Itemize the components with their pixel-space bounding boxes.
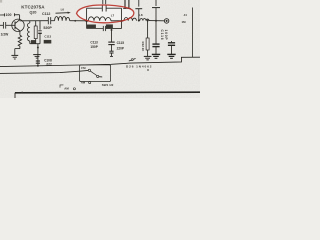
node and wire to ground/cap chain <box>37 44 39 66</box>
node (tank right junction) <box>120 20 122 22</box>
main top wire (left of C112) <box>20 20 48 22</box>
switch box SW1 <box>80 65 111 82</box>
switch arm <box>90 71 97 75</box>
cut-off component legs at top edge (x~126) <box>123 0 131 8</box>
contact circle (bottom) <box>73 88 75 90</box>
capacitor to ground (right of C116) <box>168 41 175 54</box>
capacitor (series, base input) <box>0 22 8 29</box>
svg-text:68P: 68P <box>44 40 49 44</box>
capacitor C116 to ground <box>152 21 159 55</box>
node <box>138 20 140 22</box>
svg-text:C113: C113 <box>44 35 51 39</box>
svg-text:L7: L7 <box>111 14 115 18</box>
capacitor C114 (tank bottom branch) <box>87 21 122 31</box>
wire from common <box>99 76 102 78</box>
stub to cut-off component above (left) <box>135 0 142 21</box>
svg-text:L8: L8 <box>139 13 143 17</box>
bottom board edge line <box>15 92 200 98</box>
svg-text:D26 1N4062: D26 1N4062 <box>126 65 152 69</box>
svg-text:L6: L6 <box>61 7 65 11</box>
svg-text:220P: 220P <box>117 47 125 51</box>
resistor R (100) input wire top-left <box>0 13 20 16</box>
capacitor chain C113/150P C115/220P below tank <box>108 29 114 57</box>
stub to cut-off component above (right) <box>152 0 160 21</box>
vertical inductor (left cluster) <box>28 21 30 44</box>
svg-text:C116: C116 <box>160 30 164 41</box>
svg-text:1M: 1M <box>182 20 187 24</box>
capacitor C112 (series on top wire) <box>48 17 50 24</box>
node (R chain tap) <box>147 20 149 22</box>
connector symbol (D26 tap) <box>129 59 136 62</box>
switch contact FM <box>88 69 90 71</box>
svg-text:Q20: Q20 <box>30 11 37 15</box>
capacitor C108 .022 <box>36 61 40 63</box>
whitened area inside red ellipse annotation <box>78 5 133 22</box>
inductor (between L7 and L8) <box>124 18 137 21</box>
wire/divider line A with riser to block <box>0 57 182 66</box>
node (wire junction) <box>74 20 76 22</box>
wire emitter to ground <box>15 31 22 55</box>
svg-text:C114: C114 <box>87 25 94 29</box>
wire L6 to tank <box>70 20 89 22</box>
svg-text:C113: C113 <box>90 41 98 45</box>
svg-text:C112: C112 <box>42 12 50 16</box>
svg-text:FM: FM <box>81 66 86 70</box>
svg-text:100: 100 <box>6 13 12 17</box>
wire line B to switch <box>0 70 88 73</box>
wire C112 to L6 <box>51 20 55 22</box>
svg-text:SW1 1/2: SW1 1/2 <box>102 83 114 87</box>
value label blob (cluster resistor) <box>31 40 36 43</box>
stray mark o <box>147 69 149 71</box>
tuner block outline (right edge) <box>181 8 200 58</box>
inductor L7 <box>88 17 111 21</box>
svg-text:J4: J4 <box>184 13 188 17</box>
node (C116 tap) <box>155 20 157 22</box>
connector J4 (coax jack) <box>164 19 169 24</box>
ground (C116) <box>152 54 160 58</box>
wire joining cluster <box>30 43 40 45</box>
label 10P <box>106 24 113 28</box>
ground (cluster) <box>33 55 41 59</box>
resistor chain (1K) below L8 <box>146 21 149 57</box>
label C114 <box>86 25 96 29</box>
svg-text:10P: 10P <box>107 25 112 29</box>
svg-text:150P: 150P <box>90 45 98 49</box>
wire L8 to connector <box>149 20 164 22</box>
node (tank left junction) <box>86 20 88 22</box>
node on bottom line <box>21 92 23 94</box>
svg-text:R12 1K: R12 1K <box>141 42 145 53</box>
transistor Q20 <box>8 15 24 32</box>
arrow annotation above L6 <box>56 12 71 14</box>
svg-text:C115: C115 <box>117 41 125 45</box>
inductor L8 <box>140 19 149 21</box>
inductor L6 <box>55 16 70 20</box>
paper background <box>0 0 200 98</box>
svg-text:520P: 520P <box>43 26 52 30</box>
bracket mark <box>60 85 63 88</box>
wire tank to coil <box>111 20 124 22</box>
ground (emitter) <box>11 55 18 59</box>
corner smudge <box>0 0 2 3</box>
svg-text:AM: AM <box>64 86 69 90</box>
label 68P <box>44 40 52 44</box>
red pen ellipse annotation <box>77 5 134 23</box>
switch contact AM <box>89 82 91 84</box>
svg-text:1/2W: 1/2W <box>1 33 10 37</box>
svg-text:100P: 100P <box>164 30 168 41</box>
svg-text:KTC2075A: KTC2075A <box>21 5 45 10</box>
switch contact common <box>97 75 99 77</box>
ground <box>167 54 175 58</box>
svg-text:AM: AM <box>81 81 86 85</box>
capacitor (upper branch of L7 trap) <box>87 0 122 21</box>
vertical resistor (left cluster) <box>34 21 37 44</box>
ground (1K resistor) <box>144 56 152 60</box>
node on line A <box>37 65 39 67</box>
capacitor C113 (left, 68P) <box>38 21 42 44</box>
